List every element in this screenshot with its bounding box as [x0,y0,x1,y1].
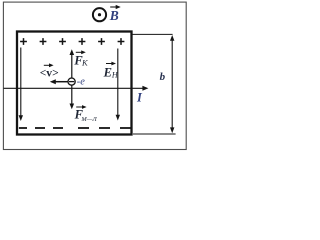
force arrow F_M (down) [70,86,75,110]
outer frame [3,2,186,149]
label <v> with vector hat [40,63,59,79]
svg-text:<v>: <v> [40,67,59,80]
negative charge row [19,127,131,129]
label B with vector hat [109,5,121,23]
dimension arrow b (double headed) [170,35,174,133]
label F_K with vector hat [73,50,89,67]
label -e [77,77,85,88]
label I [136,91,143,105]
electron symbol [68,78,75,85]
velocity arrow (left) [50,79,68,84]
magnetic field symbol (dot in circle) [93,8,106,21]
label b [160,71,166,83]
label F_M-L with vector hat [74,105,98,123]
svg-text:-e: -e [77,77,85,88]
svg-text:E: E [103,65,112,79]
positive charge row [20,38,124,45]
left field arrow (from + to -) [19,48,23,122]
svg-text:М—Л: М—Л [80,116,97,123]
force arrow F_K (up) [70,49,75,78]
wire / current line [4,86,149,91]
conductor plate [17,32,132,135]
hall field label E_H with vector hat [103,62,119,80]
svg-text:I: I [136,91,143,105]
dimension reference line bottom [133,133,176,135]
dimension reference line top [133,33,173,35]
svg-text:K: K [81,58,89,68]
svg-text:b: b [160,71,166,83]
svg-text:B: B [109,8,119,23]
right field arrow (from + to -) [116,49,120,121]
